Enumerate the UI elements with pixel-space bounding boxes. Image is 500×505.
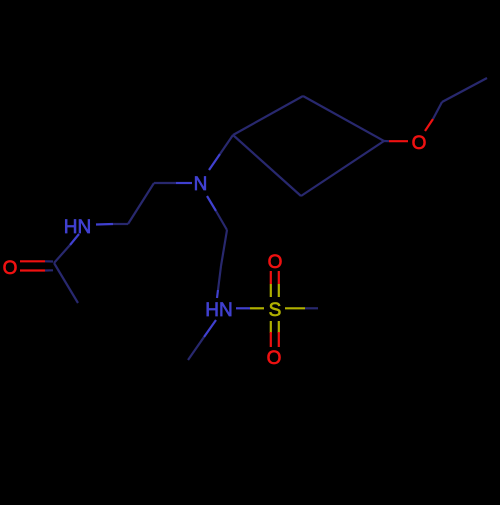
svg-text:O: O bbox=[268, 252, 283, 273]
ring edge left-top (wire) bbox=[233, 96, 303, 135]
sulfonamide N - S bond bbox=[236, 307, 264, 309]
svg-text:S: S bbox=[269, 300, 282, 321]
CH2 - sulfonamide N bond (wire) bbox=[217, 266, 221, 298]
S=O double bond lower bbox=[271, 321, 279, 347]
svg-text:HN: HN bbox=[205, 300, 232, 321]
CH2-CH2 chain bond (wire) bbox=[128, 183, 154, 224]
sulfonamide N - CH3 bond (wire) bbox=[188, 320, 216, 360]
amine N - ring C bond (wire) bbox=[209, 135, 233, 170]
svg-text:O: O bbox=[3, 258, 18, 279]
ether O - CH2 bond bbox=[425, 102, 442, 131]
acetyl C - CH3 bond (wire) bbox=[54, 263, 78, 303]
S=O double bond upper bbox=[271, 271, 279, 297]
CH2 - amine N bond (wire) bbox=[154, 182, 192, 184]
svg-text:O: O bbox=[412, 133, 427, 154]
amide N - carbonyl C bond bbox=[54, 234, 79, 263]
svg-text:O: O bbox=[267, 348, 282, 369]
acetyl C=O double bond (carbonyl) bbox=[20, 261, 53, 270]
amine N - CH2 bond toward sulfonamide chain (wire) bbox=[207, 196, 227, 230]
svg-text:HN: HN bbox=[64, 217, 91, 238]
ring edge top-right (wire) bbox=[303, 96, 384, 141]
S - CH3 bond bbox=[285, 307, 318, 309]
chain CH2-CH2 bond to sulfonamide (wire) bbox=[221, 230, 227, 266]
ethyl CH2-CH3 bond (wire) bbox=[442, 78, 487, 102]
svg-text:N: N bbox=[194, 174, 208, 195]
ring edge bottom-left (wire) bbox=[233, 135, 301, 196]
ring edge right-bottom (wire) bbox=[301, 141, 384, 196]
amide N - CH2 bond (wire) bbox=[96, 223, 128, 226]
ring C - ether O bond bbox=[384, 140, 408, 142]
